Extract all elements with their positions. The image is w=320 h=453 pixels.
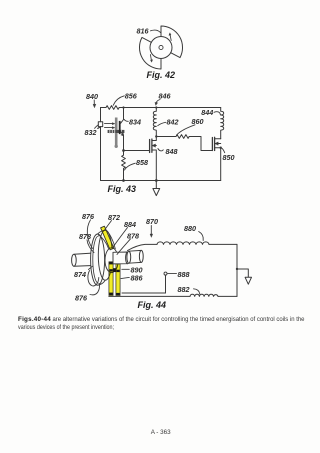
coil 844 bbox=[221, 108, 224, 139]
svg-text:884: 884 bbox=[124, 220, 136, 229]
ground symbol fig44 bbox=[245, 277, 251, 284]
MOSFET 850 body arrow bbox=[215, 143, 221, 145]
wire: assembly to top rail bbox=[128, 244, 158, 250]
MOSFET 848 gate bar bbox=[149, 140, 151, 153]
LED 832 bbox=[98, 122, 102, 127]
leader 876 bottom bbox=[90, 284, 100, 295]
leader 890 bbox=[122, 268, 130, 270]
svg-text:878: 878 bbox=[127, 232, 139, 241]
disc rim bottom connector bbox=[98, 280, 106, 285]
svg-text:850: 850 bbox=[223, 153, 235, 162]
coil 842 bbox=[153, 108, 156, 137]
leader 832 bbox=[95, 125, 99, 129]
leader 840 arrow bbox=[93, 100, 95, 104]
leader 844 bbox=[214, 112, 220, 115]
disc 878 front ellipse bbox=[91, 234, 105, 285]
svg-text:are alternative variations of: are alternative variations of the circui… bbox=[53, 316, 305, 323]
leader 856 bbox=[113, 96, 124, 106]
MOSFET 850 source stub bbox=[215, 148, 221, 181]
wire: bottom rail bbox=[101, 180, 221, 182]
wire: left rail lower bbox=[100, 127, 102, 181]
svg-text:840: 840 bbox=[86, 92, 98, 101]
rim edge behind magnet bbox=[99, 235, 109, 249]
svg-text:A - 363: A - 363 bbox=[151, 429, 171, 436]
MOSFET 850 channel bar bbox=[214, 137, 216, 150]
rotor 816 bottom-left blade bbox=[139, 37, 161, 69]
svg-text:various devices of the present: various devices of the present invention… bbox=[18, 324, 114, 331]
leader 880 bbox=[199, 232, 204, 241]
highlight on rod 886 bbox=[116, 262, 120, 296]
shaft right segment 1 bbox=[113, 252, 128, 264]
flux arrow in top blade bbox=[170, 35, 171, 41]
svg-text:888: 888 bbox=[178, 270, 190, 279]
highlight on magnet 884 bbox=[101, 226, 114, 250]
resistor 856 bbox=[106, 106, 119, 110]
sensor slot (hatched bar) bbox=[108, 130, 125, 133]
leader 850 bbox=[222, 148, 225, 153]
rotor 816 top-right blade bbox=[161, 26, 183, 58]
wire: tap stub to terminal 888 bbox=[165, 275, 167, 293]
chopper blade (grey) bbox=[115, 118, 118, 146]
rod 886 outline bbox=[116, 262, 120, 296]
disc 878 inner rim arc bbox=[93, 236, 99, 283]
junction dots fig43 bbox=[122, 106, 124, 108]
svg-text:846: 846 bbox=[159, 92, 172, 101]
arrow 870 bbox=[150, 226, 152, 235]
coil 880 bbox=[157, 242, 209, 245]
wire: 860 to gate of 850 bbox=[189, 137, 212, 151]
wire: bottom rail left bbox=[109, 295, 190, 297]
leader 884 bbox=[113, 228, 128, 248]
svg-text:834: 834 bbox=[129, 118, 141, 127]
wire: bottom rail right bbox=[218, 295, 237, 297]
rod coupler block bbox=[113, 268, 116, 272]
rod 890 outline bbox=[109, 262, 113, 296]
phototransistor 834 emitter bbox=[121, 132, 124, 151]
wire: ground branch fig44 bbox=[237, 269, 248, 277]
light arrow upper bbox=[105, 123, 113, 125]
rim edge right of magnet bbox=[106, 230, 116, 249]
cam disc bbox=[105, 248, 118, 273]
highlight on rod 890 bbox=[109, 262, 113, 296]
rotor 816 hub hole bbox=[159, 45, 163, 49]
svg-text:856: 856 bbox=[125, 92, 138, 101]
hub lobe 876 bbox=[88, 271, 99, 286]
svg-text:842: 842 bbox=[167, 117, 179, 126]
magnet 884 outline bbox=[101, 226, 114, 250]
leader 834 bbox=[124, 119, 128, 121]
shaft 874 left cylinder bbox=[74, 253, 100, 267]
terminal 888 bbox=[164, 272, 167, 275]
wire: left rail upper bbox=[100, 108, 102, 122]
svg-text:858: 858 bbox=[136, 158, 148, 167]
leader for label 816 bbox=[151, 30, 161, 32]
svg-text:880: 880 bbox=[184, 224, 196, 233]
leader 874 bbox=[89, 266, 93, 269]
wire: coil 880 to right rail bbox=[209, 243, 237, 245]
flux arrow in bottom blade bbox=[150, 55, 151, 61]
leader 848 bbox=[158, 149, 163, 151]
disc back ellipse bbox=[98, 230, 112, 280]
rotor 816 inner disc bbox=[150, 37, 172, 59]
svg-text:876: 876 bbox=[75, 294, 88, 303]
MOSFET 850 gate bar bbox=[211, 138, 213, 151]
wire: rod return upper bbox=[122, 292, 166, 294]
leader 858 bbox=[125, 163, 136, 170]
svg-text:Figs.40-44: Figs.40-44 bbox=[18, 316, 51, 323]
svg-text:Fig. 44: Fig. 44 bbox=[138, 300, 167, 310]
wire: top rail left segment bbox=[101, 107, 107, 109]
ground symbol fig43 bbox=[153, 189, 160, 196]
leader 842 bbox=[158, 122, 166, 125]
svg-text:872: 872 bbox=[108, 213, 120, 222]
svg-text:832: 832 bbox=[85, 128, 97, 137]
coil 882 bbox=[190, 294, 218, 296]
phototransistor 834 collector bbox=[121, 108, 124, 124]
wire: right rail bbox=[236, 244, 238, 296]
leader 860 bbox=[177, 125, 196, 135]
leader 872 bbox=[104, 221, 111, 231]
shaft right segment 2 bbox=[129, 250, 142, 263]
svg-text:860: 860 bbox=[192, 117, 204, 126]
svg-text:816: 816 bbox=[137, 27, 150, 36]
leader 846 bbox=[156, 100, 160, 103]
light arrow lower bbox=[105, 127, 113, 129]
svg-text:848: 848 bbox=[166, 147, 178, 156]
ground stub fig43 bbox=[155, 181, 157, 189]
MOSFET 848 source stub bbox=[152, 150, 156, 181]
wire: drain node to resistor 860 bbox=[156, 136, 176, 138]
leader 886 bbox=[121, 277, 129, 278]
svg-text:882: 882 bbox=[178, 285, 190, 294]
resistor 858 bbox=[122, 151, 126, 181]
MOSFET 848 channel bar bbox=[151, 139, 153, 152]
svg-text:Fig. 43: Fig. 43 bbox=[108, 184, 137, 194]
svg-text:886: 886 bbox=[131, 273, 144, 282]
leader 878 left bbox=[87, 240, 94, 253]
leader 878 right bbox=[117, 239, 131, 255]
leader 882 bbox=[194, 289, 200, 294]
leader 888 bbox=[168, 273, 177, 275]
svg-text:878: 878 bbox=[79, 232, 91, 241]
MOSFET 848 body arrow bbox=[152, 145, 156, 147]
svg-text:874: 874 bbox=[74, 270, 86, 279]
resistor 860 bbox=[176, 135, 189, 139]
wire: emitter to gate of 848 bbox=[124, 150, 150, 152]
wire: top rail bbox=[119, 107, 221, 109]
svg-text:Fig. 42: Fig. 42 bbox=[147, 70, 176, 80]
MOSFET 850 drain stub bbox=[215, 138, 221, 140]
svg-text:870: 870 bbox=[146, 217, 158, 226]
leader 876 top bbox=[87, 220, 92, 249]
MOSFET 848 drain stub bbox=[152, 137, 156, 141]
phototransistor 834 base bar bbox=[119, 121, 121, 134]
svg-text:876: 876 bbox=[82, 212, 95, 221]
disc rim top connector bbox=[98, 230, 106, 234]
